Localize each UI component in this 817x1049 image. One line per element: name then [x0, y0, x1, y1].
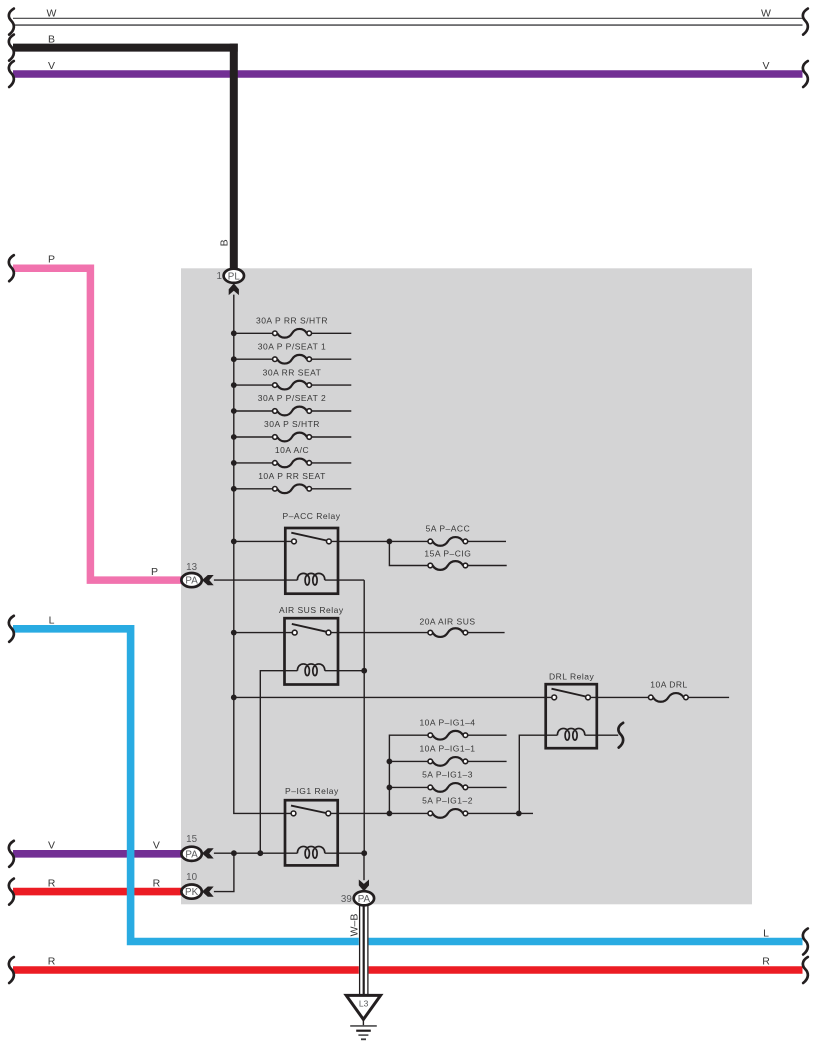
wire bus to P-ACC relay contact: [234, 540, 292, 542]
wire to fuse 30A P P/SEAT 1: [234, 358, 273, 360]
wire P (pink): [13, 268, 182, 580]
wire R (to PK-10): [13, 888, 182, 896]
svg-text:L: L: [763, 927, 769, 939]
node: junction dot PK drop: [231, 850, 237, 856]
arrow into PA-39: [359, 880, 369, 892]
wire P-IG1 coil right: [325, 852, 364, 854]
wire from fuse 30A RR SEAT: [312, 384, 352, 386]
wire DRL coil left leg: [519, 735, 557, 813]
svg-text:10A A/C: 10A A/C: [275, 445, 309, 455]
wire from fuse 20A AIR SUS: [468, 632, 505, 634]
wire AIR SUS coil right: [325, 670, 364, 672]
relay P-ACC contact right: [327, 539, 332, 544]
svg-text:W: W: [761, 8, 771, 20]
wire from fuse 30A P P/SEAT 1: [312, 358, 352, 360]
fuse 10A A/C: [277, 459, 307, 468]
svg-text:5A P–IG1–2: 5A P–IG1–2: [422, 796, 473, 806]
wire V (top violet): [13, 70, 803, 78]
svg-text:30A P P/SEAT 2: 30A P P/SEAT 2: [258, 393, 326, 403]
svg-text:39: 39: [341, 894, 352, 905]
break symbol R left: [9, 879, 14, 905]
svg-text:V: V: [762, 60, 769, 72]
svg-text:L: L: [49, 615, 55, 627]
wire feed to fuse 10A P-IG1-1: [389, 760, 428, 762]
relay DRL switch blade: [552, 689, 586, 697]
wire to fuse 30A P S/HTR: [234, 436, 273, 438]
connector 15 PA (ellipse): [181, 847, 201, 861]
relay DRL box: [546, 684, 597, 748]
ground bar 3: [358, 1034, 368, 1036]
svg-text:AIR SUS Relay: AIR SUS Relay: [279, 605, 344, 615]
wire W-B (white w/ black stripe) to ground: [359, 905, 369, 995]
svg-text:15A P–CIG: 15A P–CIG: [424, 549, 471, 559]
svg-text:30A RR SEAT: 30A RR SEAT: [263, 367, 322, 377]
connector 13 PA (ellipse): [181, 573, 201, 587]
svg-text:5A P–IG1–3: 5A P–IG1–3: [422, 770, 473, 780]
svg-text:V: V: [48, 60, 55, 72]
node: bus junction dot AIR SUS: [231, 630, 237, 636]
relay DRL contact right: [586, 695, 591, 700]
relay P-ACC contact left: [292, 539, 297, 544]
svg-text:L3: L3: [359, 999, 369, 1009]
node: junction dot x260 end: [257, 850, 263, 856]
wire from fuse 10A P-IG1-4: [468, 734, 507, 736]
wire from fuse 10A A/C: [312, 462, 352, 464]
node: bus junction dot P-ACC: [231, 539, 237, 545]
svg-text:B: B: [218, 239, 230, 246]
node: bus junction dot fuse row 2: [231, 356, 237, 362]
node: bus junction dot fuse row 6: [231, 460, 237, 466]
wire B (vertical drop to junction block): [230, 44, 238, 269]
wire from fuse 10A P RR SEAT: [312, 488, 352, 490]
relay AIR SUS coil: [297, 664, 324, 676]
wire branch to 15A P-CIG: [389, 541, 428, 565]
break symbol W left: [9, 9, 14, 35]
break symbol V right: [803, 61, 808, 87]
wire to fuse 10A P RR SEAT: [234, 488, 273, 490]
wire feed to fuse 5A P-IG1-3: [389, 786, 428, 788]
svg-text:R: R: [153, 877, 161, 889]
svg-text:PA: PA: [358, 894, 371, 905]
relay P-IG1 contact left: [291, 811, 296, 816]
fuse 5A P-IG1-3: [433, 783, 464, 792]
wire to fuse 30A RR SEAT: [234, 384, 273, 386]
break symbol P left: [9, 255, 14, 281]
wire bus to DRL relay: [234, 696, 552, 698]
node: junction dot feed 5A P-IG1-3: [387, 785, 393, 791]
svg-text:1: 1: [216, 271, 221, 282]
wire from fuse 5A P-IG1-2: [468, 812, 533, 814]
wire P-ACC coil right: [325, 579, 364, 581]
node: junction dot feed 10A P-IG1-1: [387, 759, 393, 765]
svg-text:20A AIR SUS: 20A AIR SUS: [419, 616, 475, 626]
wire from fuse 10A DRL: [688, 696, 729, 698]
wire from fuse 30A P S/HTR: [312, 436, 352, 438]
node: junction dot P-IG1 output: [387, 811, 393, 817]
node: bus junction dot fuse row 7: [231, 486, 237, 492]
relay P-IG1 switch blade: [291, 806, 326, 813]
wire DRL contact to fuse: [590, 696, 648, 698]
svg-text:30A P P/SEAT 1: 30A P P/SEAT 1: [258, 341, 326, 351]
break symbol R bottom left: [9, 957, 14, 983]
wire P-IG1 contact to fuse: [331, 812, 428, 814]
node: junction dot x364 AIR SUS coil: [361, 668, 367, 674]
node: junction dot coil return to PA-39: [361, 850, 367, 856]
arrow into PL: [229, 283, 239, 295]
wire from fuse 15A P-CIG: [468, 565, 507, 567]
svg-text:P: P: [151, 566, 158, 578]
node: junction dot P-ACC output: [387, 539, 393, 545]
relay P-ACC switch blade: [291, 533, 326, 541]
break symbol L left: [9, 616, 14, 642]
svg-text:13: 13: [186, 562, 197, 573]
wire from fuse 30A P P/SEAT 2: [312, 410, 352, 412]
wire to fuse 10A A/C: [234, 462, 273, 464]
wire vertical feed P-IG1 fuses: [389, 735, 428, 813]
node: bus junction dot fuse row 4: [231, 408, 237, 414]
wire L (light blue): [13, 629, 803, 942]
fuse 15A P-CIG: [433, 561, 464, 570]
break symbol V bottom left: [9, 841, 14, 867]
wire R (bottom): [13, 966, 803, 974]
fuse 30A RR SEAT: [277, 381, 307, 390]
connector 10 PK (ellipse): [181, 885, 201, 899]
svg-text:V: V: [48, 840, 55, 852]
wire AIR SUS coil left leg: [260, 671, 297, 854]
svg-text:W: W: [47, 8, 57, 20]
ground L3 triangle: [346, 995, 380, 1019]
fuse 30A P P/SEAT 1: [277, 355, 307, 364]
relay P-IG1 contact right: [326, 811, 331, 816]
relay P-ACC coil: [297, 573, 324, 585]
relay AIR SUS contact right: [326, 630, 331, 635]
wire from fuse 5A P-IG1-3: [468, 786, 507, 788]
svg-text:5A P–ACC: 5A P–ACC: [426, 524, 471, 534]
wire AIR SUS contact to fuse: [331, 632, 428, 634]
wire from fuse 30A P RR S/HTR: [312, 332, 352, 334]
svg-text:P: P: [48, 254, 55, 266]
svg-text:10A P–IG1–1: 10A P–IG1–1: [419, 744, 475, 754]
svg-text:15: 15: [186, 834, 197, 845]
ground stem: [362, 1019, 364, 1025]
svg-text:10: 10: [186, 872, 197, 883]
svg-text:W–B: W–B: [349, 914, 361, 937]
fuse 10A P RR SEAT: [277, 484, 307, 493]
svg-text:P–ACC Relay: P–ACC Relay: [283, 511, 341, 521]
svg-text:PA: PA: [185, 849, 198, 860]
wire DRL coil right: [585, 734, 618, 736]
break symbol W right: [803, 9, 808, 35]
relay P-IG1 box: [285, 800, 338, 865]
wire: main bus from connector PL down to P-IG1 relay: [234, 295, 291, 814]
fuse 10A P-IG1-4: [433, 731, 464, 740]
fuse 30A P RR S/HTR: [277, 329, 307, 338]
relay AIR SUS contact left: [292, 630, 297, 635]
relay AIR SUS switch blade: [292, 624, 326, 632]
wire vertical x364 (coil returns): [363, 580, 365, 853]
fuse 5A P-ACC: [433, 537, 464, 546]
fuse 10A DRL: [653, 693, 684, 702]
node: bus junction dot fuse row 5: [231, 434, 237, 440]
relay P-ACC box: [285, 528, 338, 594]
fuse 10A P-IG1-1: [433, 757, 464, 766]
svg-text:30A P RR S/HTR: 30A P RR S/HTR: [256, 316, 328, 326]
arrow into PA-13: [202, 575, 214, 585]
svg-text:B: B: [48, 33, 55, 45]
ground bar 1: [350, 1025, 377, 1027]
fuse 5A P-IG1-2: [433, 809, 464, 818]
wire to fuse 30A P P/SEAT 2: [234, 410, 273, 412]
break symbol L right: [803, 929, 808, 955]
wire from fuse 10A P-IG1-1: [468, 760, 507, 762]
arrow into PK-10: [202, 887, 214, 897]
break symbol R bottom right: [803, 957, 808, 983]
arrow into PA-15: [202, 848, 214, 858]
wire connector PA-13 to P-ACC coil: [214, 579, 298, 581]
wire down to connector PA-39: [363, 853, 365, 880]
wire drop to connector PK-10: [214, 853, 234, 891]
svg-text:10A P RR SEAT: 10A P RR SEAT: [258, 471, 326, 481]
fuse 20A AIR SUS: [433, 628, 464, 637]
svg-text:R: R: [48, 877, 56, 889]
break symbol B left: [9, 35, 14, 61]
junction block (gray box): [181, 268, 752, 904]
relay AIR SUS box: [285, 618, 339, 684]
connector 39 PA (ellipse): [354, 891, 374, 905]
wire from fuse 5A P-ACC: [468, 540, 506, 542]
svg-text:R: R: [762, 956, 770, 968]
svg-text:PK: PK: [185, 887, 199, 898]
wire connector PA-15 to P-IG1 coil: [214, 852, 298, 854]
svg-text:PL: PL: [228, 271, 241, 282]
wire to fuse 30A P RR S/HTR: [234, 332, 273, 334]
svg-text:DRL Relay: DRL Relay: [549, 672, 595, 682]
svg-text:30A P S/HTR: 30A P S/HTR: [264, 419, 320, 429]
svg-text:10A P–IG1–4: 10A P–IG1–4: [419, 717, 475, 727]
connector 1 PL (ellipse): [224, 269, 244, 283]
svg-text:V: V: [153, 840, 160, 852]
wire W (top, white outline wire): [13, 17, 803, 19]
node: bus junction dot fuse row 1: [231, 330, 237, 336]
wire P-ACC contact to 5A P-ACC fuse: [331, 540, 428, 542]
node: junction dot DRL coil return: [516, 811, 522, 817]
relay DRL contact left: [552, 695, 557, 700]
wire bus to AIR SUS relay contact: [234, 632, 292, 634]
ground bar 2: [356, 1030, 371, 1032]
wire V (to PA-15): [13, 850, 182, 858]
svg-text:10A DRL: 10A DRL: [650, 680, 688, 690]
fuse 30A P S/HTR: [277, 433, 307, 442]
break symbol DRL coil wire: [618, 723, 623, 748]
svg-text:P–IG1 Relay: P–IG1 Relay: [285, 786, 339, 796]
node: bus junction dot fuse row 3: [231, 382, 237, 388]
svg-text:PA: PA: [185, 576, 198, 587]
relay DRL coil: [557, 728, 584, 740]
fuse 30A P P/SEAT 2: [277, 407, 307, 416]
wire B (top black, horizontal): [13, 44, 238, 52]
ground bar 4: [361, 1038, 366, 1040]
break symbol V left: [9, 61, 14, 87]
relay P-IG1 coil: [297, 846, 324, 858]
svg-text:R: R: [48, 956, 56, 968]
node: bus junction dot DRL feed: [231, 695, 237, 701]
